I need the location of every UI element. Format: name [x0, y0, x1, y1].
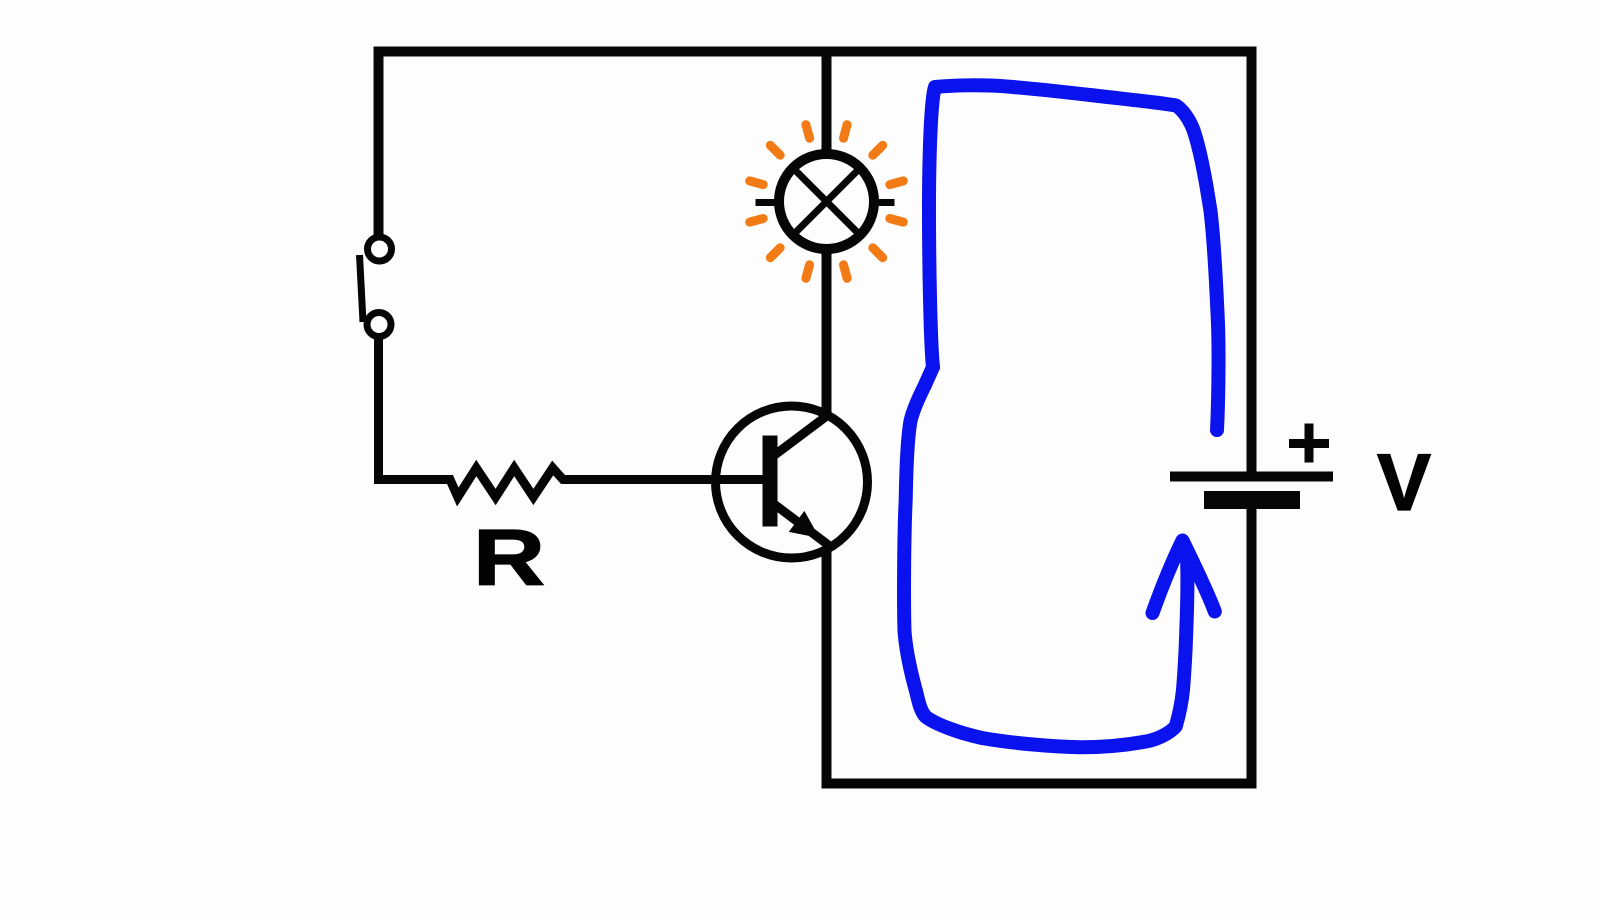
wire: switch bottom to lower-left corner, through resistor to transistor base — [379, 339, 771, 497]
wire: top rail with left drop to switch and right drop to battery + — [379, 52, 1252, 473]
svg-text:V: V — [1377, 438, 1431, 528]
lamp glow rays — [750, 125, 904, 279]
wire: lamp to transistor collector — [822, 245, 832, 417]
lamp (indicator, lit) — [756, 154, 895, 249]
transistor (NPN) — [716, 406, 868, 558]
battery V — [1170, 477, 1333, 510]
svg-text:R: R — [473, 513, 545, 602]
switch (open) — [360, 237, 392, 337]
current loop annotation (hand-drawn, clockwise) — [904, 85, 1218, 747]
wire: transistor emitter to bottom rail and up to battery - — [827, 506, 1252, 784]
battery plus polarity mark — [1289, 424, 1329, 463]
wire: lamp drop from top rail — [822, 52, 832, 159]
